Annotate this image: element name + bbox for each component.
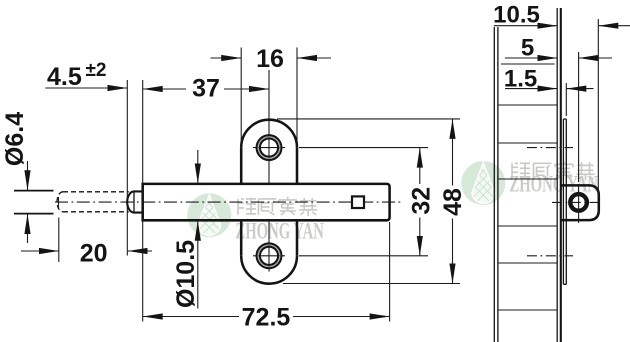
svg-text:Ø10.5: Ø10.5 [172,240,200,308]
svg-text:±2: ±2 [86,60,107,81]
svg-text:32: 32 [408,187,436,215]
svg-text:Ø6.4: Ø6.4 [1,112,29,166]
svg-text:1.5: 1.5 [504,65,537,92]
svg-text:72.5: 72.5 [242,303,291,331]
svg-text:5: 5 [521,35,534,62]
svg-text:4.5: 4.5 [47,63,82,91]
svg-text:20: 20 [80,240,108,268]
svg-text:ZHONG YAN: ZHONG YAN [235,219,323,244]
svg-text:16: 16 [256,45,284,73]
svg-text:10.5: 10.5 [493,2,540,29]
svg-text:37: 37 [192,75,220,103]
svg-text:48: 48 [439,188,467,216]
